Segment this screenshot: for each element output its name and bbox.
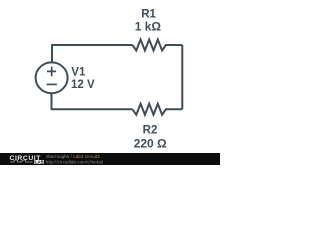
svg-text:http://circuitlab.com/c/4e4a6: http://circuitlab.com/c/4e4a6 [46, 159, 104, 164]
watermark bar [0, 153, 220, 165]
wire right: from R1 right lead down to R2 right lead [181, 45, 183, 109]
plus sign [47, 67, 56, 77]
svg-text:R2: R2 [143, 124, 158, 136]
CircuitLab logo text [10, 155, 44, 164]
voltage source V1 circle [36, 62, 68, 93]
svg-text:1 kΩ: 1 kΩ [135, 20, 162, 34]
svg-text:12 V: 12 V [71, 79, 95, 91]
wire top: from source top-left corner to R1 left lead [52, 45, 133, 63]
svg-text:220 Ω: 220 Ω [134, 137, 167, 151]
svg-text:V1: V1 [71, 67, 86, 79]
resistor R1 [133, 40, 183, 51]
resistor R2 [133, 104, 183, 115]
minus sign [47, 83, 57, 85]
wire bottom: from R2 left lead to below source [52, 93, 133, 109]
svg-text:LAB: LAB [35, 159, 44, 164]
